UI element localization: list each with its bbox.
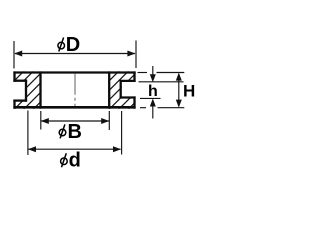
left bore wall (39, 71, 41, 108)
hatching left profile (0, 0, 143, 143)
phi symbol of phiB (59, 124, 66, 138)
h down arrow (150, 74, 156, 82)
phiB right extension (108, 111, 110, 130)
phiD left extension (13, 41, 15, 69)
h up arrow (150, 99, 156, 107)
H top extension line (138, 72, 148, 74)
phid left extension (27, 111, 29, 156)
left outer edge (top flange) (13, 71, 15, 81)
phid left arrow (28, 146, 36, 152)
h top extension line (139, 81, 184, 83)
svg-text:D: D (66, 34, 80, 56)
right outer edge (bottom flange) (133, 96, 135, 108)
left bottom flange top (13, 99, 27, 101)
right flange underside (120, 80, 136, 82)
H down arrow (176, 100, 182, 108)
left outer edge (bottom flange) (13, 100, 15, 109)
H up arrow (176, 73, 182, 81)
H dim line (178, 74, 180, 106)
phid right extension (121, 111, 123, 155)
phi symbol of phiD (58, 38, 65, 52)
phi symbol of phid (61, 153, 68, 167)
h top arrow shaft (152, 66, 154, 75)
svg-text:B: B (68, 121, 82, 143)
right bottom flange top (120, 96, 136, 98)
phid dim line (28, 148, 120, 150)
phiD right arrow (127, 51, 135, 57)
arrowheads (14, 51, 182, 153)
svg-text:h: h (148, 83, 158, 100)
phiB left arrow (41, 118, 49, 124)
phiD left arrow (14, 51, 22, 57)
phiD right extension (135, 41, 137, 69)
h bottom extension line (140, 97, 161, 99)
body outline (13, 71, 135, 108)
right bore wall (108, 71, 110, 108)
left groove bottom wall (25, 80, 27, 102)
right groove bottom wall (120, 80, 122, 99)
left flange underside (13, 80, 27, 82)
hatching right profile (90, 0, 248, 148)
phiD dim line (15, 53, 135, 55)
right outer edge (top flange) (133, 71, 135, 82)
phiB left extension (40, 111, 42, 130)
h bottom arrow shaft (152, 106, 154, 119)
svg-text:d: d (69, 149, 81, 171)
top line (13, 71, 135, 73)
centerline (74, 74, 76, 106)
phiB dim line (41, 120, 109, 122)
dimension lines (14, 41, 184, 156)
svg-text:H: H (183, 82, 195, 101)
phiB right arrow (101, 118, 109, 124)
bottom line (13, 106, 135, 109)
H bottom extension line (140, 107, 146, 109)
phid right arrow (113, 146, 121, 152)
